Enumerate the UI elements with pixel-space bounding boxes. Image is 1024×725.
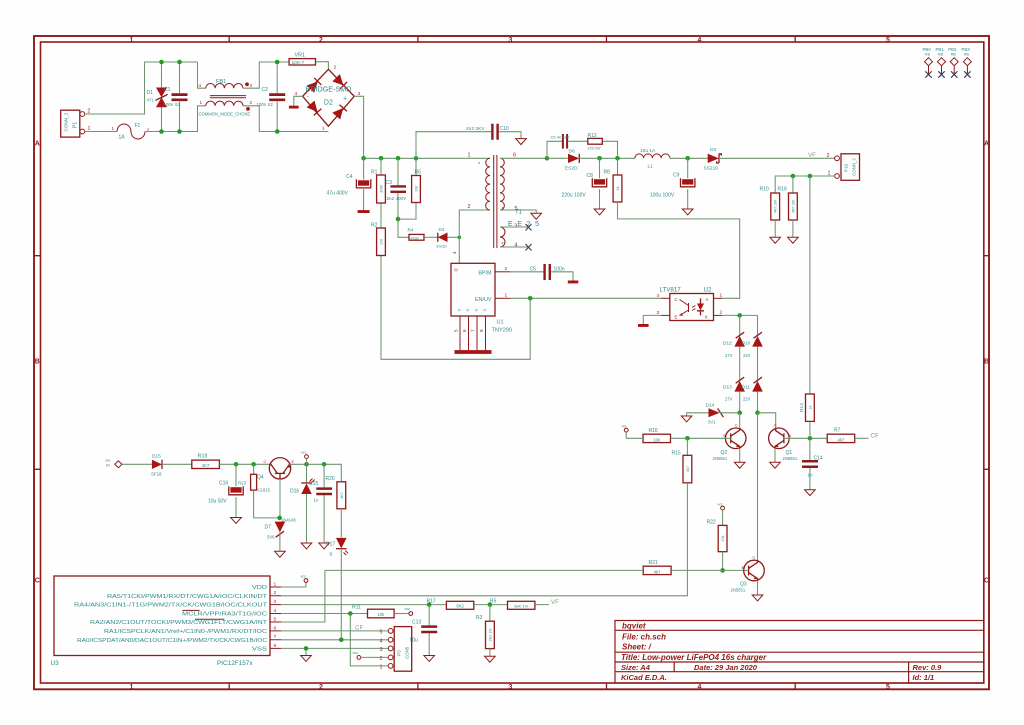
svg-text:IN: IN xyxy=(106,464,110,468)
svg-text:10k: 10k xyxy=(377,612,385,617)
U2 pin4 xyxy=(661,297,670,299)
resistor R6 xyxy=(398,158,416,219)
svg-text:5V6: 5V6 xyxy=(267,535,275,540)
svg-text:*: * xyxy=(478,162,480,168)
svg-text:2: 2 xyxy=(380,656,383,662)
resistor R22 xyxy=(722,510,724,525)
svg-text:vcc: vcc xyxy=(405,607,411,611)
resistor R15 xyxy=(686,438,688,455)
svg-text:C1: C1 xyxy=(164,87,171,93)
capacitor C13 10u xyxy=(428,605,430,656)
svg-text:4R7 2W: 4R7 2W xyxy=(791,199,795,213)
transistor Q4 C1815 xyxy=(269,458,290,479)
svg-text:PB2: PB2 xyxy=(948,47,957,52)
svg-text:10k: 10k xyxy=(653,437,661,442)
svg-text:A: A xyxy=(35,141,40,148)
svg-text:D1: D1 xyxy=(147,90,154,96)
svg-text:B: B xyxy=(35,359,40,366)
svg-text:10K-7: 10K-7 xyxy=(292,60,305,66)
wire junction down to R2 feedback path xyxy=(381,256,530,360)
svg-text:P10: P10 xyxy=(844,163,849,172)
svg-text:4: 4 xyxy=(274,608,277,614)
fuse F1 1A xyxy=(117,124,145,139)
svg-text:2: 2 xyxy=(274,590,277,596)
U1 pin2 BP/M to C5 xyxy=(495,271,510,273)
wire P1 pin1 to fuse xyxy=(85,131,117,133)
svg-text:4: 4 xyxy=(380,638,383,644)
svg-text:27V: 27V xyxy=(725,353,733,358)
svg-text:R19: R19 xyxy=(778,187,787,193)
junction at secondary pin6 xyxy=(545,156,550,161)
svg-text:D3: D3 xyxy=(710,147,716,153)
svg-text:R12: R12 xyxy=(588,133,597,139)
svg-text:D16: D16 xyxy=(290,489,299,495)
svg-text:6: 6 xyxy=(513,153,516,159)
wire U3 pin4 to R11 xyxy=(281,613,367,615)
svg-text:3: 3 xyxy=(274,599,277,605)
resistor R12 xyxy=(588,138,603,144)
svg-text:F1: F1 xyxy=(135,123,141,129)
svg-text:220u 100V: 220u 100V xyxy=(562,193,587,199)
U2 pin1 xyxy=(714,297,723,299)
svg-text:R22: R22 xyxy=(707,520,716,526)
svg-text:C: C xyxy=(753,556,756,560)
svg-text:vcc: vcc xyxy=(301,451,307,455)
svg-text:10u 1A: 10u 1A xyxy=(640,148,656,154)
wire fuse to bottom rail xyxy=(145,106,206,132)
svg-text:D6: D6 xyxy=(569,149,575,155)
MCU U3 PIC12F157x xyxy=(54,576,270,656)
svg-text:VF: VF xyxy=(808,152,816,159)
wire D3 to connector P10 xyxy=(719,157,835,159)
U1 source pins to ground bar xyxy=(460,316,486,350)
snubber cap C10 2n2 2KV xyxy=(416,132,521,159)
wire VR1 to bridge pin2 xyxy=(316,62,329,70)
svg-text:C15: C15 xyxy=(309,481,318,487)
svg-text:4: 4 xyxy=(657,293,660,299)
ground at C10 xyxy=(516,139,527,145)
zener D11 22V xyxy=(752,381,763,392)
svg-text:D17: D17 xyxy=(326,542,335,548)
power VS at R16 xyxy=(624,428,628,432)
svg-text:EN/UV: EN/UV xyxy=(475,297,492,303)
zener D13 27V xyxy=(734,381,745,392)
svg-text:R18: R18 xyxy=(198,454,208,460)
svg-text:TNY290: TNY290 xyxy=(492,328,513,334)
svg-text:4k7: 4k7 xyxy=(686,466,690,472)
inductor L1 10u 1A xyxy=(635,154,670,158)
diode D4 xyxy=(437,233,439,242)
svg-text:C2: C2 xyxy=(262,87,269,93)
svg-text:VR1: VR1 xyxy=(295,53,306,59)
resistor R8 xyxy=(617,158,619,175)
capacitor C14 1n xyxy=(809,438,811,489)
svg-text:R23: R23 xyxy=(238,481,247,486)
resistor R2 xyxy=(377,228,386,256)
svg-text:220 2W: 220 2W xyxy=(588,147,602,151)
wire choke pin3 to top rail right xyxy=(243,62,289,88)
svg-text:5: 5 xyxy=(274,616,277,622)
svg-text:U3: U3 xyxy=(51,660,60,667)
capacitor C6 xyxy=(563,134,567,149)
svg-text:8: 8 xyxy=(274,643,277,649)
resistor R1 xyxy=(380,158,382,228)
svg-text:vcc: vcc xyxy=(718,503,724,507)
resistor R3 2K2 1% xyxy=(489,605,491,622)
svg-text:4k7: 4k7 xyxy=(838,437,845,442)
svg-text:ES2D: ES2D xyxy=(565,166,578,172)
junction dots left rails xyxy=(159,60,164,65)
svg-text:C13: C13 xyxy=(412,620,421,626)
svg-text:D2: D2 xyxy=(324,100,333,107)
svg-text:5: 5 xyxy=(886,37,890,44)
svg-text:RA1/ICSPCLK/AN1/Vref+/C1IN0-/P: RA1/ICSPCLK/AN1/Vref+/C1IN0-/PWM1/RX/DT/… xyxy=(104,629,268,635)
svg-text:27V: 27V xyxy=(725,397,733,402)
svg-text:C5: C5 xyxy=(530,266,537,272)
capacitor C15 1u xyxy=(323,464,325,543)
svg-text:5: 5 xyxy=(380,629,383,635)
svg-text:R11: R11 xyxy=(352,605,361,611)
svg-text:100n X2: 100n X2 xyxy=(164,102,181,107)
svg-text:BRIDGE-SMD: BRIDGE-SMD xyxy=(306,85,352,94)
svg-text:D: D xyxy=(454,268,459,271)
svg-text:U2: U2 xyxy=(704,287,712,294)
svg-text:L1: L1 xyxy=(648,164,654,170)
svg-text:C: C xyxy=(35,578,40,585)
svg-text:1k: 1k xyxy=(615,186,620,190)
svg-text:RB: RB xyxy=(951,53,957,57)
wire pin5 to ground xyxy=(500,210,536,213)
svg-text:LTV817: LTV817 xyxy=(660,287,682,294)
svg-text:D13: D13 xyxy=(723,385,732,391)
svg-text:1: 1 xyxy=(720,293,723,299)
svg-text:D11: D11 xyxy=(742,385,751,391)
svg-text:C4: C4 xyxy=(346,174,353,180)
svg-text:3: 3 xyxy=(250,83,253,88)
svg-text:4: 4 xyxy=(199,83,202,88)
capacitor C2 100n X2 xyxy=(276,62,278,132)
svg-text:8K2: 8K2 xyxy=(456,604,464,609)
U2 pin2 to zeners xyxy=(714,314,723,316)
IC U1 TNY290 xyxy=(451,263,495,316)
wire pin4 node to P3 pin1 xyxy=(350,614,388,666)
svg-text:RB: RB xyxy=(925,53,931,57)
svg-text:RA5/T1CKI/PWM1/RX/DT/CWG1A/IOC: RA5/T1CKI/PWM1/RX/DT/CWG1A/IOC/CLKIN/DT xyxy=(107,594,267,600)
zener D10 22V xyxy=(752,336,763,347)
svg-text:S: S xyxy=(482,309,487,312)
svg-text:100u 100V: 100u 100V xyxy=(650,193,675,199)
svg-text:4: 4 xyxy=(515,243,518,249)
svg-text:10k: 10k xyxy=(721,535,725,541)
svg-text:R2: R2 xyxy=(371,223,378,229)
varistor VR1 10K-7 xyxy=(289,59,315,65)
capacitor C8 220u 100V xyxy=(599,158,601,209)
svg-text:3M3: 3M3 xyxy=(379,184,384,193)
svg-text:C: C xyxy=(735,424,738,428)
diode D6 ES2D xyxy=(547,157,568,159)
wire transformer pin2 down to U1 drain xyxy=(459,210,490,263)
resistor R23 xyxy=(253,464,255,474)
svg-text:2: 2 xyxy=(720,310,723,316)
frame row ticks xyxy=(34,256,989,470)
svg-text:Size: A4: Size: A4 xyxy=(621,663,651,672)
wire to Q2 collector xyxy=(739,413,741,429)
ground at pin5 xyxy=(531,213,542,219)
power vcc at P3 pin2 xyxy=(357,656,361,660)
svg-text:C: C xyxy=(264,460,267,464)
svg-text:5V1: 5V1 xyxy=(708,420,716,425)
svg-text:1: 1 xyxy=(200,100,203,105)
svg-text:KiCad E.D.A.: KiCad E.D.A. xyxy=(621,673,667,682)
resistor R18 xyxy=(192,460,220,468)
wire bridge pin3 to DC bus xyxy=(354,96,363,158)
U3 pin stubs xyxy=(270,587,281,648)
svg-text:C10: C10 xyxy=(500,126,509,132)
svg-text:CF: CF xyxy=(871,433,879,440)
svg-text:3: 3 xyxy=(380,647,383,653)
svg-text:RA4/AN3/C1IN1-/T1G/PWM2/TX/CK/: RA4/AN3/C1IN1-/T1G/PWM2/TX/CK/CWG1B/IOC/… xyxy=(74,603,267,609)
svg-text:D14: D14 xyxy=(706,403,715,409)
transformer T1 EE25 xyxy=(486,158,490,210)
diode D3 SS210 xyxy=(708,154,719,163)
svg-text:PB0: PB0 xyxy=(923,47,932,52)
diode LED D16 1N4148 xyxy=(306,464,308,543)
svg-text:2: 2 xyxy=(827,153,830,159)
svg-text:C16: C16 xyxy=(219,481,228,487)
svg-text:R20: R20 xyxy=(326,476,335,482)
wire R21 to Q3 base xyxy=(671,569,749,571)
svg-text:2N5551: 2N5551 xyxy=(713,456,728,461)
svg-text:R14: R14 xyxy=(799,403,805,412)
frame column numbers top xyxy=(130,37,891,44)
wire P1 pin2 to top rail xyxy=(85,62,198,114)
svg-text:1: 1 xyxy=(130,37,134,44)
svg-text:C6 4n 63V: C6 4n 63V xyxy=(551,135,570,140)
svg-text:B: B xyxy=(984,359,989,366)
svg-text:K: K xyxy=(705,315,708,320)
feedback sense wire VF down to R14 xyxy=(809,176,811,394)
U1 pin1 EN/UV to junction xyxy=(495,297,510,299)
resistor R5 68K 1% xyxy=(508,601,535,609)
svg-text:2: 2 xyxy=(319,684,323,691)
zener D12 27V xyxy=(734,336,745,347)
svg-text:1: 1 xyxy=(274,581,277,587)
transistor Q3 2N5551 xyxy=(744,560,765,581)
svg-text:1: 1 xyxy=(505,292,508,298)
capacitor C5 100n xyxy=(545,264,550,280)
wire P10 pin1 to loads xyxy=(775,176,834,193)
svg-text:R17: R17 xyxy=(427,599,436,605)
svg-text:5: 5 xyxy=(454,329,459,332)
wire D17 to MCU pin7 xyxy=(340,549,342,640)
power vcc at U3 pin1 xyxy=(281,582,306,587)
earth ground at C4 xyxy=(358,210,370,213)
junction at R8 xyxy=(615,156,620,161)
svg-text:A: A xyxy=(706,297,709,302)
svg-text:CONN_2: CONN_2 xyxy=(852,158,857,176)
svg-text:Rev: 0.9: Rev: 0.9 xyxy=(913,663,943,672)
capacitor C16 10u 50V xyxy=(235,464,237,517)
svg-text:4700: 4700 xyxy=(411,237,419,241)
zener chain wires xyxy=(740,315,758,412)
svg-text:Q4: Q4 xyxy=(257,475,264,481)
transistor Q2 2N5551 xyxy=(725,428,746,449)
svg-text:R6: R6 xyxy=(415,170,422,176)
wire R23 to base node xyxy=(254,490,280,518)
svg-text:RB: RB xyxy=(964,53,970,57)
svg-text:R21: R21 xyxy=(649,560,658,566)
frame column numbers bottom xyxy=(130,684,891,691)
power vcc at R22 xyxy=(721,506,725,510)
svg-text:CON5: CON5 xyxy=(405,646,410,659)
earth ground at bridge xyxy=(289,106,299,109)
wire R15 down to MCU pin2 net xyxy=(281,483,687,596)
junction node under C3 xyxy=(396,217,401,222)
svg-text:D4: D4 xyxy=(439,227,445,232)
wire junction to R4 xyxy=(398,219,409,237)
svg-text:5: 5 xyxy=(886,684,890,691)
svg-text:2: 2 xyxy=(505,266,508,272)
svg-text:3: 3 xyxy=(509,684,513,691)
svg-text:8: 8 xyxy=(479,329,484,332)
wire U3 pin6 to P3 pin5 xyxy=(281,630,388,632)
svg-text:1M: 1M xyxy=(414,186,419,192)
svg-text:P3: P3 xyxy=(397,650,402,656)
svg-text:2n2 400V: 2n2 400V xyxy=(387,196,408,201)
svg-text:PB3: PB3 xyxy=(961,47,970,52)
svg-text:1: 1 xyxy=(112,126,115,131)
capacitor C9 100u 100V xyxy=(687,158,689,209)
title block texts xyxy=(621,621,942,682)
opto U2 LTV817 xyxy=(670,294,714,321)
svg-text:E: E xyxy=(675,315,678,320)
svg-text:VF: VF xyxy=(551,599,559,606)
svg-text:ES1D: ES1D xyxy=(437,244,448,249)
svg-text:Date: 29 Jan 2020: Date: 29 Jan 2020 xyxy=(694,663,758,672)
resistor R19 xyxy=(792,176,794,193)
wire secondary pin6 to junction xyxy=(500,157,547,159)
svg-text:C1815: C1815 xyxy=(258,488,271,493)
svg-text:Id: 1/1: Id: 1/1 xyxy=(913,673,935,682)
wire R8 to opto pin1 xyxy=(618,202,740,298)
capacitor C4 47u 400V xyxy=(363,158,365,210)
connector P1 xyxy=(61,110,80,137)
svg-text:Title: Low-power LiFePO4 16s c: Title: Low-power LiFePO4 16s charger xyxy=(621,653,767,662)
svg-text:6: 6 xyxy=(274,625,277,631)
svg-text:1: 1 xyxy=(322,126,325,132)
svg-text:7: 7 xyxy=(471,329,476,332)
svg-text:R1: R1 xyxy=(371,170,378,176)
svg-text:CF: CF xyxy=(355,625,363,632)
wire U3 pin3 to divider xyxy=(281,604,446,606)
bridge rectifier D2 BRIDGE-SMD xyxy=(303,69,355,126)
svg-text:RB: RB xyxy=(938,53,944,57)
svg-text:47u 400V: 47u 400V xyxy=(327,191,349,197)
resistor R21 xyxy=(643,566,671,574)
frame column ticks xyxy=(229,36,795,689)
svg-text:4: 4 xyxy=(698,37,702,44)
no-connect pin3 xyxy=(500,226,529,228)
svg-text:10u: 10u xyxy=(410,638,419,644)
svg-text:R8: R8 xyxy=(604,170,611,176)
svg-text:COMMON_MODE_CHOKE: COMMON_MODE_CHOKE xyxy=(199,112,251,117)
svg-text:A: A xyxy=(984,141,989,148)
svg-text:4: 4 xyxy=(452,251,457,254)
svg-text:C9: C9 xyxy=(673,173,680,179)
svg-text:R5: R5 xyxy=(490,599,497,605)
svg-text:2N5551: 2N5551 xyxy=(731,587,746,592)
connector P3 CON5 xyxy=(394,627,412,672)
svg-text:2M: 2M xyxy=(379,239,384,245)
svg-text:File: ch.sch: File: ch.sch xyxy=(622,633,666,642)
svg-text:100n: 100n xyxy=(554,266,565,272)
svg-text:1: 1 xyxy=(468,153,471,159)
svg-text:PB1: PB1 xyxy=(936,47,945,52)
svg-text:B: B xyxy=(330,552,333,557)
svg-text:7: 7 xyxy=(274,634,277,640)
resistor R17 8K2 xyxy=(446,601,473,609)
svg-text:100n X2: 100n X2 xyxy=(257,102,274,107)
svg-text:1: 1 xyxy=(130,684,134,691)
svg-text:S: S xyxy=(457,309,462,312)
LED D17 xyxy=(340,509,342,538)
svg-text:22V: 22V xyxy=(743,397,751,402)
svg-text:SS210: SS210 xyxy=(704,166,719,172)
junction at C9 xyxy=(685,156,690,161)
wire to Q1 collector xyxy=(758,413,776,429)
connector P10 CONN_2 xyxy=(841,154,860,181)
capacitor C3 2n2 400V xyxy=(397,158,399,219)
svg-text:2N5551: 2N5551 xyxy=(783,456,798,461)
ground at D14 xyxy=(681,416,692,422)
svg-text:R4: R4 xyxy=(408,228,414,233)
svg-text:bqviet: bqviet xyxy=(622,621,646,630)
svg-text:RA0/ICSPDAT/AN0/DAC1OUT/C1IN+/: RA0/ICSPDAT/AN0/DAC1OUT/C1IN+/PWM2/TX/CK… xyxy=(77,638,267,644)
power vcc above rail xyxy=(305,455,309,459)
U2 pin3 to earth xyxy=(661,314,670,316)
wire bridge pin4 to earth xyxy=(294,96,303,106)
svg-text:S: S xyxy=(474,309,479,312)
wire D4 to primary pin2 leg xyxy=(448,236,460,238)
svg-text:4K7: 4K7 xyxy=(340,492,344,499)
svg-text:+: + xyxy=(343,96,347,103)
svg-text:C: C xyxy=(675,297,678,302)
svg-text:2: 2 xyxy=(319,37,323,44)
transistor Q1 2N5551 xyxy=(769,428,790,449)
svg-text:22V: 22V xyxy=(743,353,751,358)
svg-text:4K7: 4K7 xyxy=(202,463,210,468)
svg-text:MCLR/VPP/RA3/T1G/IOC: MCLR/VPP/RA3/T1G/IOC xyxy=(182,612,268,618)
svg-text:2K2 1%: 2K2 1% xyxy=(488,628,492,641)
wire U3 pin8 to P3 pin3 and ground xyxy=(281,648,388,655)
resistor R10 xyxy=(771,193,780,220)
svg-text:P2: P2 xyxy=(106,459,111,463)
resistor R16 xyxy=(643,434,671,442)
svg-text:1: 1 xyxy=(380,664,383,670)
svg-text:R15: R15 xyxy=(672,451,681,457)
svg-text:vcc: vcc xyxy=(301,575,307,579)
svg-text:4R7 2W: 4R7 2W xyxy=(774,199,778,213)
svg-text:D7: D7 xyxy=(265,525,272,531)
resistor R20 xyxy=(337,482,346,509)
svg-text:BP/M: BP/M xyxy=(478,270,492,276)
svg-text:2: 2 xyxy=(334,65,337,71)
svg-text:2n2 2KV: 2n2 2KV xyxy=(466,126,485,132)
wire top rail to choke pin4 xyxy=(198,62,206,88)
resistor R11 xyxy=(368,609,395,618)
wire Q4 base down xyxy=(279,479,281,518)
wire R4 to D4 xyxy=(424,236,438,238)
